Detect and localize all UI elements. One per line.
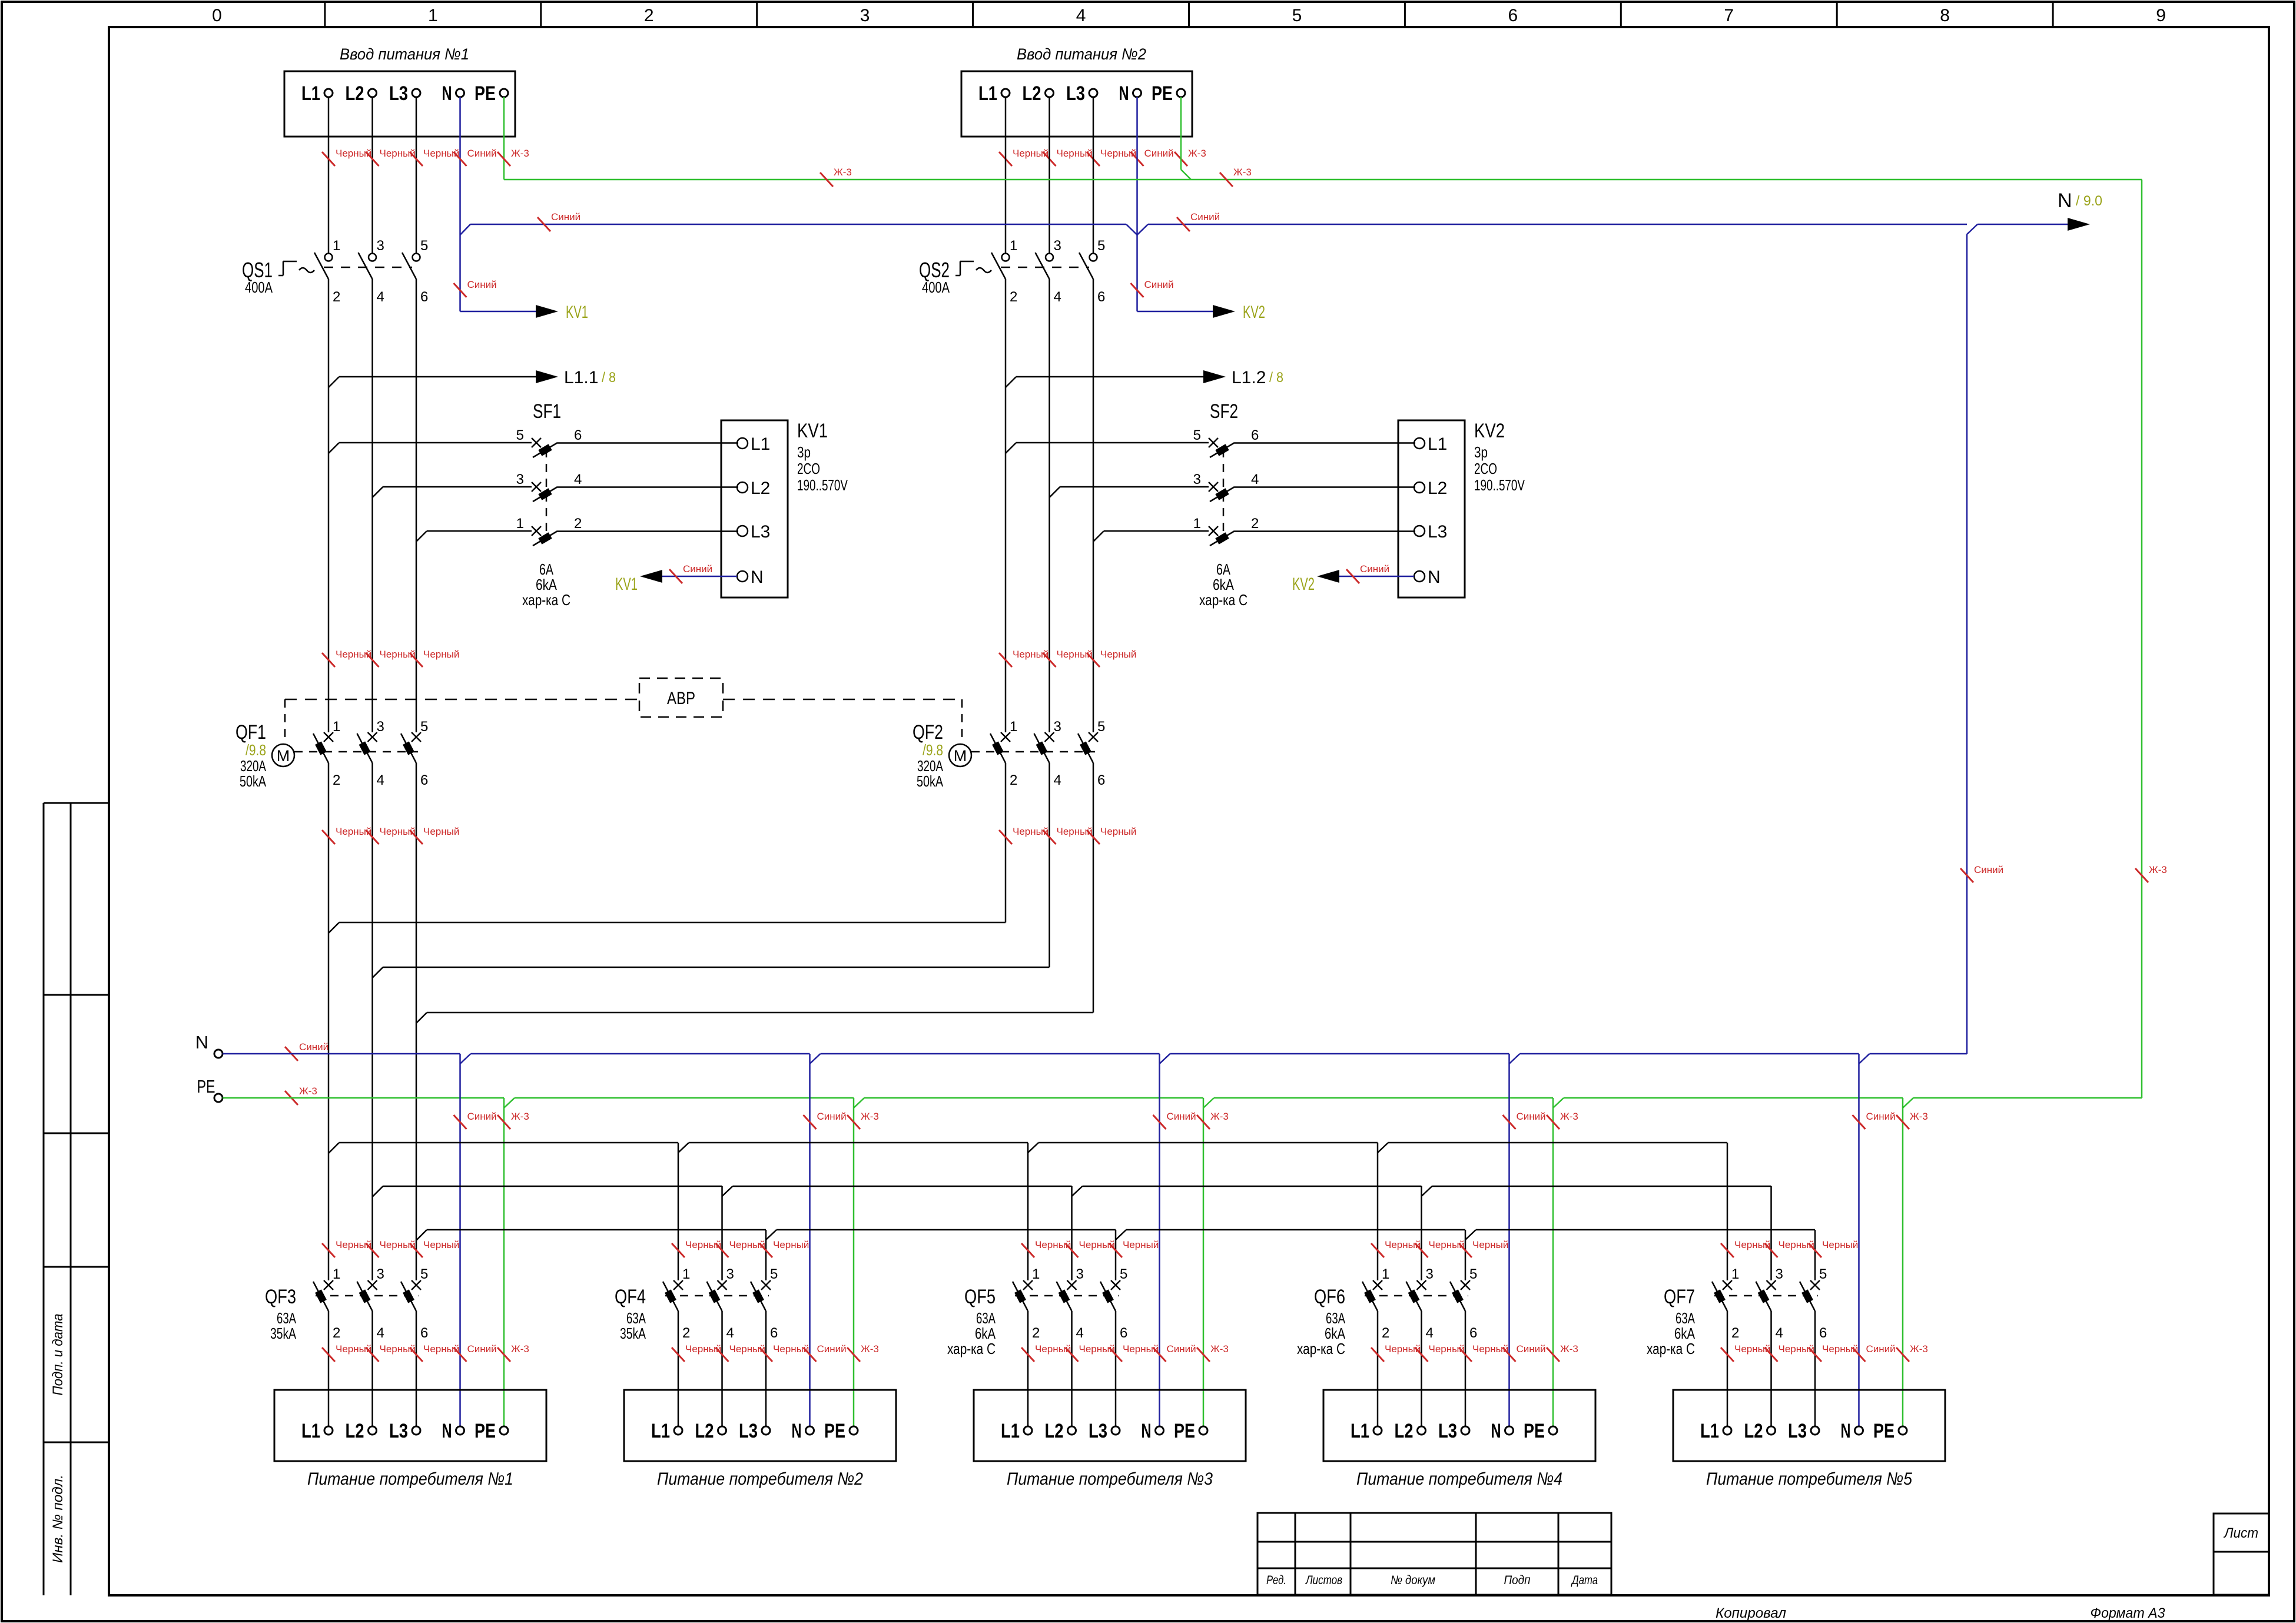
green PE rail with taps to consumers xyxy=(223,1097,504,1099)
wire blue N into KV1 with reference arrow xyxy=(651,576,737,577)
tap and reference arrow L1.1 / 8 xyxy=(329,377,339,387)
svg-text:Синий: Синий xyxy=(1144,279,1174,290)
svg-text:Черный: Черный xyxy=(773,1239,809,1250)
svg-text:Ж-3: Ж-3 xyxy=(299,1086,317,1097)
KV1 terminal L1 xyxy=(737,438,748,449)
svg-text:Синий: Синий xyxy=(467,148,497,159)
svg-text:Ж-3: Ж-3 xyxy=(511,148,529,159)
wire N input2 (blue) down joining N run and to KV2 arrow corner xyxy=(1136,97,1138,311)
svg-text:PE: PE xyxy=(824,1420,845,1442)
svg-text:L3: L3 xyxy=(1089,1420,1107,1442)
phase wire QS1 pin6 down to QF1 pin5 xyxy=(416,279,417,732)
svg-text:PE: PE xyxy=(1873,1420,1894,1442)
svg-text:QF5: QF5 xyxy=(964,1286,996,1308)
distribution bus L1 feeding QF4..QF7 xyxy=(329,1143,339,1153)
color mark Ж-3 on PE rail xyxy=(285,1091,298,1105)
svg-text:L1: L1 xyxy=(301,82,320,105)
svg-text:Синий: Синий xyxy=(817,1111,847,1122)
QS2 pole linkage dashed line xyxy=(1001,267,1089,268)
QF4 pole contact 5-6 xyxy=(761,1280,771,1290)
svg-text:Синий: Синий xyxy=(1974,864,2003,875)
SF1 pole contact cross xyxy=(532,482,541,492)
svg-text:4: 4 xyxy=(1426,1325,1434,1341)
svg-text:Черный: Черный xyxy=(1822,1343,1858,1355)
svg-text:190..570V: 190..570V xyxy=(1474,476,1525,494)
sheet number box Лист xyxy=(2214,1514,2269,1595)
svg-text:L3: L3 xyxy=(1066,82,1085,105)
svg-text:Ж-3: Ж-3 xyxy=(1560,1343,1578,1355)
wire SF1 pole output to relay box terminal xyxy=(558,486,738,488)
svg-text:L3: L3 xyxy=(1438,1420,1457,1442)
svg-text:Ж-3: Ж-3 xyxy=(1910,1111,1928,1122)
QF7 pole contact 5-6 xyxy=(1810,1280,1820,1290)
SF2 pole 5-6 input tap from phase wire xyxy=(1006,443,1016,453)
phase wire QF1 pin4 down to QF3 pin3 xyxy=(371,763,373,1280)
terminal N of input box 2 xyxy=(1133,89,1142,97)
color mark Синий on N rail xyxy=(285,1047,298,1061)
svg-text:35kA: 35kA xyxy=(620,1325,646,1342)
svg-text:PE: PE xyxy=(1152,82,1173,105)
svg-text:2CO: 2CO xyxy=(1474,460,1497,477)
svg-text:1: 1 xyxy=(1382,1266,1389,1282)
bus L3 drop to QF6 pin5 xyxy=(1465,1230,1466,1280)
SF1 linkage dashed line xyxy=(546,449,548,537)
SF2 pole contact cross xyxy=(1209,482,1218,492)
svg-text:хар-ка C: хар-ка C xyxy=(522,591,570,609)
svg-text:Синий: Синий xyxy=(467,1111,497,1122)
svg-text:Дата: Дата xyxy=(1571,1574,1598,1587)
QF6 pole output wire to consumer box xyxy=(1377,1311,1379,1426)
QF6 wire color marks below xyxy=(1371,1347,1384,1362)
color mark Синий on blue right vertical xyxy=(1960,868,1973,882)
QS2 handle symbol xyxy=(955,275,960,277)
green PE run from input1 corner to right down corner xyxy=(504,179,2142,181)
svg-text:1: 1 xyxy=(1010,719,1017,735)
svg-text:Синий: Синий xyxy=(1167,1343,1196,1355)
svg-text:3: 3 xyxy=(377,238,384,254)
voltage relay box KV2 xyxy=(1398,420,1465,598)
svg-text:L1: L1 xyxy=(1351,1420,1369,1442)
SF1 pole contact cross xyxy=(532,438,541,447)
phase wire QS1 pin2 down to QF1 pin1 xyxy=(328,279,330,732)
SF2 pole contact cross xyxy=(1209,438,1218,447)
svg-text:KV1: KV1 xyxy=(566,303,588,322)
SF1 pole blade with release box xyxy=(533,487,558,502)
wire color marks below input box 2 xyxy=(999,152,1012,166)
svg-text:QF7: QF7 xyxy=(1664,1286,1695,1308)
terminal N of consumer box 2 xyxy=(806,1426,814,1435)
QF3 linkage dashed line xyxy=(316,1295,419,1297)
svg-text:L1: L1 xyxy=(1001,1420,1020,1442)
svg-text:3: 3 xyxy=(1193,472,1201,487)
SF1 pole contact cross xyxy=(532,526,541,536)
svg-text:5: 5 xyxy=(1819,1266,1827,1282)
QF6 pole contact 1-2 xyxy=(1373,1280,1382,1290)
top ruler ticks and numbers xyxy=(324,2,326,27)
QS1 pole contact 3-4 xyxy=(369,254,376,261)
terminal N of input box 1 xyxy=(456,89,464,97)
svg-text:Ж-3: Ж-3 xyxy=(1910,1343,1928,1355)
terminal L1 of consumer box 1 xyxy=(324,1426,333,1435)
QF3 wire color marks above xyxy=(322,1243,335,1257)
terminal L3 of consumer box 3 xyxy=(1111,1426,1120,1435)
svg-text:Синий: Синий xyxy=(1360,563,1389,575)
automatic transfer switch dashed link ABP-QF2 xyxy=(723,699,962,701)
svg-text:KV2: KV2 xyxy=(1474,420,1505,442)
svg-text:2CO: 2CO xyxy=(797,460,820,477)
automatic transfer switch dashed link QF1-ABP xyxy=(285,699,639,701)
QF4 pole output wire to consumer box xyxy=(765,1311,767,1426)
svg-text:Ред.: Ред. xyxy=(1266,1574,1286,1587)
svg-text:Ж-3: Ж-3 xyxy=(1233,167,1252,178)
svg-text:L3: L3 xyxy=(389,1420,408,1442)
svg-text:Питание потребителя №5: Питание потребителя №5 xyxy=(1706,1469,1912,1489)
bus L2 corner drop to QF7 pin3 xyxy=(1770,1186,1772,1280)
svg-text:L3: L3 xyxy=(1788,1420,1807,1442)
svg-text:N: N xyxy=(792,1420,802,1442)
QF1 pole contact 1-2 xyxy=(324,732,333,742)
terminal L1 of consumer box 4 xyxy=(1373,1426,1382,1435)
QF5 wire color marks below xyxy=(1021,1347,1034,1362)
svg-text:5: 5 xyxy=(1469,1266,1477,1282)
terminal L3 of consumer box 1 xyxy=(412,1426,420,1435)
QF3 pole contact 5-6 xyxy=(412,1280,421,1290)
QF3 pole contact 1-2 xyxy=(324,1280,333,1290)
svg-text:Ж-3: Ж-3 xyxy=(1560,1111,1578,1122)
svg-text:Ж-3: Ж-3 xyxy=(511,1111,529,1122)
bus L3 drop to QF4 pin5 xyxy=(765,1230,767,1280)
svg-text:M: M xyxy=(954,747,967,765)
svg-text:L1.2: L1.2 xyxy=(1232,368,1266,387)
bus L2 drop to QF4 pin3 xyxy=(721,1186,723,1280)
svg-text:PE: PE xyxy=(475,1420,496,1442)
svg-text:Синий: Синий xyxy=(1144,148,1174,159)
wire N drop to consumer box 4 xyxy=(1508,1054,1510,1426)
terminal L2 of consumer box 2 xyxy=(718,1426,726,1435)
tie line L3 between QF1 and QF2 outputs xyxy=(416,1013,427,1023)
svg-text:5: 5 xyxy=(1193,427,1201,443)
svg-text:АВР: АВР xyxy=(667,689,695,708)
svg-text:Черный: Черный xyxy=(1100,649,1136,660)
QF6 wire color marks above xyxy=(1371,1243,1384,1257)
QF5 pole output wire to consumer box xyxy=(1027,1311,1029,1426)
svg-text:Черный: Черный xyxy=(1123,1239,1159,1250)
QF4 wire color marks above xyxy=(672,1243,685,1257)
QF5 wire color marks above xyxy=(1021,1243,1034,1257)
QF7 pole output wire to consumer box xyxy=(1770,1311,1772,1426)
QF3 wire color marks below xyxy=(322,1347,335,1362)
terminal N of consumer box 3 xyxy=(1156,1426,1164,1435)
KV2 terminal L2 xyxy=(1414,482,1425,493)
SF2 pole 3-4 input tap from phase wire xyxy=(1050,487,1060,497)
QF6 pole contact 5-6 xyxy=(1461,1280,1470,1290)
green PE right vertical down to PE rail xyxy=(2141,180,2143,1098)
svg-text:5: 5 xyxy=(1292,6,1302,25)
wire L2 input2 to QS2 pin3 xyxy=(1049,97,1050,253)
svg-text:3: 3 xyxy=(726,1266,734,1282)
bus L3 drop to QF5 pin5 xyxy=(1115,1230,1117,1280)
svg-text:9: 9 xyxy=(2156,6,2166,25)
phase wire QF1 pin2 down to QF3 pin1 xyxy=(328,763,330,1280)
svg-text:L2: L2 xyxy=(1023,82,1041,105)
svg-text:1: 1 xyxy=(333,1266,340,1282)
svg-text:5: 5 xyxy=(1097,719,1105,735)
QF6 linkage dashed line xyxy=(1365,1295,1468,1297)
svg-text:5: 5 xyxy=(770,1266,778,1282)
bus L2 drop to QF6 pin3 xyxy=(1421,1186,1422,1280)
svg-text:Синий: Синий xyxy=(467,279,497,290)
svg-text:хар-ка C: хар-ка C xyxy=(1199,591,1247,609)
svg-text:хар-ка C: хар-ка C xyxy=(1647,1340,1695,1358)
QF1 pole contact 5-6 xyxy=(412,732,421,742)
svg-text:/ 8: / 8 xyxy=(602,370,616,386)
QS1 pole contact 1-2 xyxy=(325,254,333,261)
terminal L1 of consumer box 5 xyxy=(1723,1426,1731,1435)
svg-text:PE: PE xyxy=(1524,1420,1545,1442)
svg-text:QF2: QF2 xyxy=(913,721,943,744)
QS2 pole contact 5-6 xyxy=(1090,254,1097,261)
QF3 pole output wire to consumer box xyxy=(371,1311,373,1426)
svg-text:N: N xyxy=(1428,567,1441,587)
wire SF1 pole output to relay box terminal xyxy=(558,530,738,532)
svg-text:L1: L1 xyxy=(978,82,997,105)
svg-text:Ж-3: Ж-3 xyxy=(861,1111,879,1122)
wire PE drop to consumer box 1 xyxy=(503,1098,505,1426)
terminal L3 of input box 2 xyxy=(1089,89,1097,97)
svg-text:хар-ка C: хар-ка C xyxy=(1297,1340,1345,1358)
svg-text:/ 9.0: / 9.0 xyxy=(2076,193,2102,209)
QF7 wire color marks below xyxy=(1721,1347,1734,1362)
svg-text:L3: L3 xyxy=(389,82,408,105)
QF2 pole contact 1-2 xyxy=(1001,732,1010,742)
svg-text:3: 3 xyxy=(1054,238,1061,254)
svg-text:3p: 3p xyxy=(797,443,811,461)
QF7 pole output wire to consumer box xyxy=(1727,1311,1728,1426)
svg-text:0: 0 xyxy=(212,6,222,25)
QS1 pole linkage dashed line xyxy=(324,267,412,268)
wire SF2 pole output to relay box terminal xyxy=(1235,530,1415,532)
wire N drop to consumer box 3 xyxy=(1159,1054,1160,1426)
QF2 linkage dashed line xyxy=(971,751,1095,753)
svg-text:L3: L3 xyxy=(751,522,770,542)
svg-text:2: 2 xyxy=(1010,289,1017,305)
svg-text:6: 6 xyxy=(1097,289,1105,305)
svg-text:6: 6 xyxy=(420,772,428,788)
tap of blue N run down right vertical xyxy=(1967,224,1978,234)
QF2 motor drive symbol M xyxy=(961,699,963,744)
svg-text:2: 2 xyxy=(333,772,340,788)
KV2 terminal N xyxy=(1414,571,1425,582)
terminal L3 of consumer box 2 xyxy=(762,1426,770,1435)
color mark Ж-3 on green right vertical xyxy=(2135,868,2148,882)
svg-text:KV2: KV2 xyxy=(1243,303,1265,322)
svg-text:4: 4 xyxy=(1054,772,1061,788)
SF2 pole blade with release box xyxy=(1210,487,1235,502)
QF4 pole contact 1-2 xyxy=(673,1280,683,1290)
blue N run continues to tap at right xyxy=(1148,224,1967,225)
svg-text:L1: L1 xyxy=(301,1420,320,1442)
svg-text:Черный: Черный xyxy=(423,1239,459,1250)
svg-text:Ж-3: Ж-3 xyxy=(1210,1343,1229,1355)
QF4 pole output wire to consumer box xyxy=(678,1311,679,1426)
svg-text:L1: L1 xyxy=(651,1420,670,1442)
bus L1 corner drop to QF7 pin1 xyxy=(1727,1143,1728,1280)
terminal PE of consumer box 3 xyxy=(1199,1426,1207,1435)
terminal L3 of consumer box 4 xyxy=(1461,1426,1469,1435)
color mark Синий on blue N run right part xyxy=(1177,217,1190,231)
QF6 pole output wire to consumer box xyxy=(1465,1311,1466,1426)
svg-text:4: 4 xyxy=(1076,1325,1084,1341)
QF2 pole contact 3-4 xyxy=(1045,732,1054,742)
svg-text:Ввод питания №2: Ввод питания №2 xyxy=(1017,45,1146,63)
phase wire QF1 pin6 down to QF3 pin5 xyxy=(416,763,417,1280)
svg-text:3: 3 xyxy=(1054,719,1061,735)
bus L1 drop to QF5 pin1 xyxy=(1027,1143,1029,1280)
svg-text:Синий: Синий xyxy=(1517,1343,1546,1355)
wire L1 input1 to QS1 pin1 xyxy=(328,97,330,253)
QF5 pole contact 5-6 xyxy=(1111,1280,1120,1290)
terminal L1 of consumer box 2 xyxy=(674,1426,682,1435)
svg-text:N: N xyxy=(1119,82,1129,105)
svg-text:5: 5 xyxy=(420,1266,428,1282)
svg-text:№ докум: № докум xyxy=(1391,1574,1435,1587)
reference arrow KV2 (blue N to relay KV2) xyxy=(1137,311,1213,313)
wire SF2 pole output to relay box terminal xyxy=(1235,442,1415,444)
QF3 pole output wire to consumer box xyxy=(416,1311,417,1426)
svg-text:50kA: 50kA xyxy=(917,772,943,790)
KV2 terminal L3 xyxy=(1414,526,1425,536)
svg-text:L3: L3 xyxy=(1428,522,1447,542)
bus L3 corner drop to QF7 pin5 xyxy=(1814,1230,1816,1280)
svg-text:L2: L2 xyxy=(751,479,770,498)
svg-text:6: 6 xyxy=(770,1325,778,1341)
svg-text:Синий: Синий xyxy=(1190,211,1220,223)
QS1 handle symbol xyxy=(278,275,283,277)
svg-text:2: 2 xyxy=(1032,1325,1040,1341)
wire L3 input1 to QS1 pin5 xyxy=(416,97,417,253)
svg-text:2: 2 xyxy=(1010,772,1017,788)
svg-text:1: 1 xyxy=(682,1266,690,1282)
QF3 pole output wire to consumer box xyxy=(328,1311,330,1426)
bus L1 drop to QF4 pin1 xyxy=(678,1143,679,1280)
distribution bus L3 feeding QF4..QF7 xyxy=(416,1230,427,1240)
svg-text:Синий: Синий xyxy=(1167,1111,1196,1122)
QF4 pole output wire to consumer box xyxy=(721,1311,723,1426)
svg-text:N: N xyxy=(2058,190,2072,212)
svg-text:KV1: KV1 xyxy=(615,575,638,594)
phase wire QF2 pin4 down to tie line L2 xyxy=(1049,763,1050,967)
color mark Ж-3 on green PE run right part xyxy=(1220,172,1233,187)
svg-text:4: 4 xyxy=(1251,472,1259,487)
svg-text:Ж-3: Ж-3 xyxy=(2149,864,2167,875)
svg-text:3: 3 xyxy=(1776,1266,1783,1282)
svg-text:KV1: KV1 xyxy=(797,420,828,442)
wire PE input2 (green) down to junction with PE run xyxy=(1180,97,1182,170)
svg-text:Черный: Черный xyxy=(1822,1239,1858,1250)
wire N drop to consumer box 5 xyxy=(1858,1054,1860,1426)
bus L2 drop to QF5 pin3 xyxy=(1071,1186,1073,1280)
wire blue N into KV2 with reference arrow xyxy=(1328,576,1414,577)
svg-text:SF2: SF2 xyxy=(1210,400,1238,423)
QF5 pole output wire to consumer box xyxy=(1071,1311,1073,1426)
QF7 wire color marks above xyxy=(1721,1243,1734,1257)
terminal L3 of consumer box 5 xyxy=(1811,1426,1819,1435)
SF2 pole blade with release box xyxy=(1210,531,1235,546)
svg-text:Синий: Синий xyxy=(683,563,712,575)
svg-text:6: 6 xyxy=(1097,772,1105,788)
QF4 wire color marks below xyxy=(672,1347,685,1362)
svg-text:Черный: Черный xyxy=(423,1343,459,1355)
svg-text:Ж-3: Ж-3 xyxy=(1210,1111,1229,1122)
svg-text:Листов: Листов xyxy=(1305,1574,1342,1587)
svg-text:Синий: Синий xyxy=(467,1343,497,1355)
svg-text:4: 4 xyxy=(377,289,384,305)
phase wire QS2 pin2 down to QF2 pin1 xyxy=(1005,279,1007,732)
KV1 terminal L2 xyxy=(737,482,748,493)
QS1 pole contact 5-6 xyxy=(413,254,420,261)
terminal L2 of consumer box 1 xyxy=(369,1426,377,1435)
consumer terminal box Питание потребителя №5 xyxy=(1673,1390,1945,1461)
svg-text:L1: L1 xyxy=(1428,434,1447,454)
QF7 pole output wire to consumer box xyxy=(1814,1311,1816,1426)
svg-text:/9.8: /9.8 xyxy=(245,741,266,759)
terminal N of consumer box 5 xyxy=(1855,1426,1863,1435)
SF2 pole blade with release box xyxy=(1210,443,1235,457)
svg-text:1: 1 xyxy=(1010,238,1017,254)
svg-text:L2: L2 xyxy=(1428,479,1447,498)
SF1 pole blade with release box xyxy=(533,531,558,546)
svg-text:Инв. № подл.: Инв. № подл. xyxy=(50,1475,66,1563)
rail terminal N xyxy=(214,1050,223,1058)
SF1 pole 3-4 input tap from phase wire xyxy=(373,487,383,497)
svg-text:Синий: Синий xyxy=(1866,1343,1896,1355)
QF1 linkage dashed line xyxy=(294,751,418,753)
wire PE input1 (green) down to PE top run corner xyxy=(503,97,505,180)
svg-text:4: 4 xyxy=(377,1325,384,1341)
svg-text:2: 2 xyxy=(644,6,654,25)
svg-text:PE: PE xyxy=(475,82,496,105)
svg-text:Ж-3: Ж-3 xyxy=(834,167,852,178)
svg-text:4: 4 xyxy=(377,772,384,788)
svg-text:N: N xyxy=(1841,1420,1851,1442)
terminal L1 of input box 2 xyxy=(1001,89,1010,97)
wire PE drop to consumer box 2 xyxy=(853,1098,855,1426)
wire SF2 pole output to relay box terminal xyxy=(1235,486,1415,488)
QS2 pole contact 1-2 xyxy=(1002,254,1010,261)
svg-text:N: N xyxy=(442,82,452,105)
svg-text:190..570V: 190..570V xyxy=(797,476,848,494)
svg-text:L2: L2 xyxy=(346,82,364,105)
svg-text:Синий: Синий xyxy=(1517,1111,1546,1122)
svg-text:L2: L2 xyxy=(1045,1420,1064,1442)
svg-text:N: N xyxy=(751,567,764,587)
terminal L2 of consumer box 5 xyxy=(1767,1426,1776,1435)
wire L2 input1 to QS1 pin3 xyxy=(371,97,373,253)
svg-text:Черный: Черный xyxy=(1472,1239,1508,1250)
terminal L1 of consumer box 3 xyxy=(1024,1426,1032,1435)
QF3 pole contact 3-4 xyxy=(368,1280,377,1290)
svg-text:N: N xyxy=(1491,1420,1501,1442)
svg-text:1: 1 xyxy=(516,516,524,532)
svg-text:Подп. и дата: Подп. и дата xyxy=(50,1314,66,1396)
wire N drop to consumer box 2 xyxy=(809,1054,811,1426)
svg-text:M: M xyxy=(277,747,290,765)
svg-text:Синий: Синий xyxy=(551,211,580,223)
SF1 pole blade with release box xyxy=(533,443,558,457)
svg-text:1: 1 xyxy=(333,719,340,735)
QF1 motor drive symbol M xyxy=(284,699,286,744)
consumer terminal box Питание потребителя №3 xyxy=(974,1390,1246,1461)
